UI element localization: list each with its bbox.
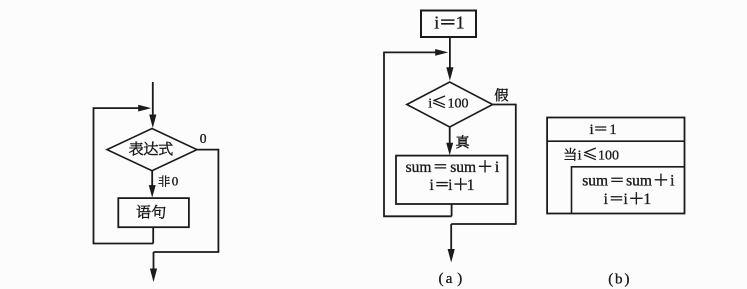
svg-text:i: i (670, 173, 675, 190)
label 表达式 in diamond (129, 142, 143, 156)
wire: diamond to statement box (151, 171, 153, 186)
svg-text:1: 1 (643, 191, 651, 208)
svg-text:i: i (495, 159, 500, 176)
svg-text:(: ( (608, 272, 613, 288)
wire: exit vertical (a) (450, 224, 452, 250)
svg-text:): ) (625, 272, 630, 288)
svg-text:a: a (446, 271, 453, 287)
svg-text:0: 0 (172, 174, 179, 189)
svg-text:i: i (624, 191, 629, 208)
svg-text:i: i (434, 13, 439, 33)
wire: exit vertical (left flowchart) (153, 252, 155, 270)
wire: false branch right vertical (a) (515, 104, 517, 224)
svg-text:sum: sum (582, 173, 608, 190)
wire: 0-branch bottom horizontal to exit (154, 251, 220, 253)
svg-text:1: 1 (467, 177, 475, 194)
wire: left loop vertical (left flowchart) (93, 107, 95, 243)
wire: entry line into left flowchart (152, 82, 154, 118)
process box i=1 (421, 11, 476, 38)
process box 语句 (118, 198, 189, 227)
wire: i=1 box to diamond (449, 37, 451, 70)
svg-text:sum: sum (406, 159, 432, 176)
exit arrow (a) (448, 249, 455, 263)
decision diamond 表达式 (107, 129, 197, 171)
wire: statement box bottom vertical (152, 227, 154, 243)
wire: false branch right horizontal (a) (493, 104, 516, 106)
label i<=100 in diamond (433, 96, 445, 108)
arrow into statement box (149, 185, 156, 198)
svg-text:i: i (430, 177, 435, 194)
arrow into decision diamond (a) (446, 67, 453, 81)
svg-text:1: 1 (456, 13, 465, 33)
wire: sum box bottom vertical (a) (451, 204, 453, 216)
wire: left loop vertical (a) (383, 52, 385, 217)
svg-text:1: 1 (609, 122, 617, 138)
exit arrow (left flowchart) (150, 269, 157, 283)
label 当i<=100 (N-S row 2) (565, 148, 576, 161)
svg-text:100: 100 (598, 149, 619, 164)
svg-text:sum: sum (626, 173, 652, 190)
divider below i=1 row (547, 140, 684, 142)
junction arrow (a) loop entry (435, 49, 448, 56)
svg-text:100: 100 (448, 97, 469, 112)
decision diamond i<=100 (407, 82, 493, 127)
wire: bottom loop horizontal (left flowchart) (93, 243, 154, 245)
N-S diagram outer box (547, 118, 684, 214)
svg-text:i: i (448, 177, 453, 194)
label 非0 (true branch) (159, 176, 170, 187)
svg-text:i: i (604, 191, 609, 208)
svg-text:0: 0 (200, 131, 207, 146)
N-S loop body box (572, 167, 685, 214)
label 假 (false branch) (495, 88, 508, 101)
wire: false branch bottom horizontal (a) (451, 223, 516, 225)
label 真 (true branch) (456, 135, 469, 148)
svg-text:i: i (428, 97, 432, 112)
arrow into decision diamond (left flowchart) (149, 115, 156, 129)
wire: bottom loop horizontal (a) (383, 215, 451, 217)
svg-text:(: ( (439, 271, 444, 287)
svg-text:i: i (578, 149, 582, 164)
svg-text:i: i (590, 122, 594, 138)
svg-text:): ) (457, 271, 462, 287)
process box sum=sum+i ; i=i+1 (396, 156, 508, 204)
svg-text:b: b (615, 272, 623, 288)
label 语句 in box (137, 205, 151, 219)
wire: loop-back top horizontal (left flowchart) (94, 107, 141, 109)
wire: 0-branch right horizontal (197, 149, 218, 151)
wire: 0-branch right vertical (217, 149, 219, 252)
wire: diamond to sum box (449, 127, 451, 144)
arrow into sum box (446, 143, 453, 156)
junction arrow into node (left flowchart loop entry) (138, 105, 151, 112)
svg-text:sum: sum (450, 159, 476, 176)
wire: loop-back top horizontal (a) (384, 51, 436, 53)
